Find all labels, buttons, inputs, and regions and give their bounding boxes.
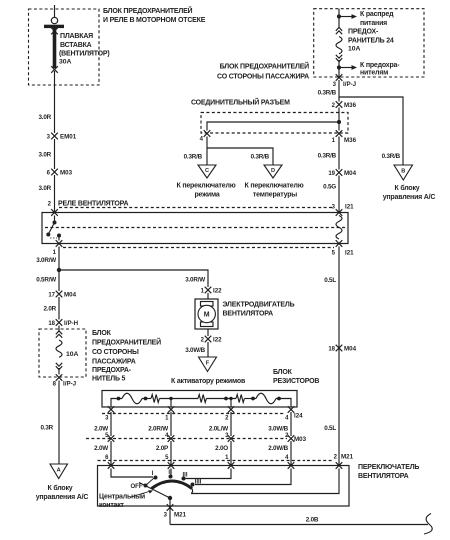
svg-text:3.0R: 3.0R [38,114,51,121]
svg-text:IIII: IIII [195,480,202,486]
passenger fuse block dashed boundary through relay [59,207,334,209]
relay switch contact [54,216,56,223]
svg-text:4: 4 [200,137,204,143]
svg-text:БЛОК: БЛОК [273,369,293,376]
svg-text:C: C [205,168,209,174]
wires M03 to M21 [110,441,112,466]
wire 3.0R to relay [54,175,56,213]
connector I24 row [108,406,115,413]
connector M03 pin 6 [51,169,58,176]
continuation squiggle [424,514,432,535]
svg-text:2: 2 [332,103,336,109]
svg-text:3.0R/W: 3.0R/W [185,277,205,284]
svg-text:2.0R: 2.0R [43,306,56,313]
svg-text:(ВЕНТИЛЯТОР): (ВЕНТИЛЯТОР) [59,51,110,58]
wire inside fuse block [338,9,340,28]
svg-text:I21: I21 [345,204,354,211]
node to fuses [337,65,341,69]
wire to motor [207,293,209,299]
svg-text:0.5L: 0.5L [324,277,336,284]
svg-text:РЕЛЕ ВЕНТИЛЯТОРА: РЕЛЕ ВЕНТИЛЯТОРА [58,201,128,208]
svg-text:3: 3 [332,205,336,211]
svg-text:управления А/С: управления А/С [383,194,436,201]
svg-text:0.3R/B: 0.3R/B [184,154,203,161]
svg-text:2: 2 [334,455,338,461]
thermal limiter coil 2 [256,393,276,404]
engine compartment fuse/relay block (dashed box) [29,9,100,85]
svg-text:ВСТАВКА: ВСТАВКА [60,42,92,49]
svg-text:ПЕРЕКЛЮЧАТЕЛЬ: ПЕРЕКЛЮЧАТЕЛЬ [358,464,419,471]
wire 3.0R [54,139,56,169]
svg-text:2.0W/B: 2.0W/B [268,445,288,452]
connector I22 pin 1 [205,287,212,294]
rotor arc [152,481,193,489]
svg-text:2: 2 [48,202,52,208]
svg-text:B: B [401,169,405,175]
fan switch box [98,466,350,507]
resistor 3 [236,395,244,403]
svg-text:II: II [168,470,172,476]
connector I/P-J pin 8 [58,368,60,375]
svg-text:ПРЕДОХРАНИТЕЛЕЙ: ПРЕДОХРАНИТЕЛЕЙ [92,338,161,347]
svg-text:нителям: нителям [360,70,388,77]
node to power distribution [337,14,341,18]
wire 2.0R [58,297,60,320]
svg-text:III: III [182,473,187,479]
svg-text:0.5R/W: 0.5R/W [36,277,56,284]
svg-text:1: 1 [165,416,169,422]
wire 3.0R/W below relay pin 1 [58,247,60,292]
relay coil [336,216,342,240]
relay pin 5 I21 [336,240,343,247]
svg-text:M21: M21 [174,512,187,519]
svg-text:БЛОК ПРЕДОХРАНИТЕЛЕЙ: БЛОК ПРЕДОХРАНИТЕЛЕЙ [220,62,310,71]
wire 0.3R/B main [338,137,340,170]
connector M36 pin 2 [336,101,343,108]
svg-text:2.0W: 2.0W [94,445,108,452]
central contact [168,496,172,500]
svg-text:I21: I21 [345,250,354,257]
svg-text:2: 2 [225,416,229,422]
svg-text:1: 1 [201,289,205,295]
svg-text:3.0R/W: 3.0R/W [36,257,56,264]
wire 3.0W/B [207,342,209,357]
svg-text:контакт: контакт [99,502,125,509]
svg-text:НИТЕЛЬ 5: НИТЕЛЬ 5 [92,376,126,383]
svg-text:СО СТОРОНЫ ПАССАЖИРА: СО СТОРОНЫ ПАССАЖИРА [217,74,309,81]
svg-text:К блоку: К блоку [395,184,420,192]
tap pin 2 [229,397,232,400]
svg-text:I24: I24 [294,413,303,420]
branch wire to A/C control [339,97,403,165]
connector I/P-H pin 18 [56,319,63,326]
svg-text:3.0W/B: 3.0W/B [185,347,205,354]
svg-text:10А: 10А [348,46,361,53]
junction node [337,120,341,124]
svg-text:ПАССАЖИРА: ПАССАЖИРА [92,359,136,366]
switch lever [139,483,170,499]
connector M03 row [108,435,115,442]
passenger fuse block (dashed box, top right) [314,9,424,77]
svg-text:1: 1 [53,250,57,256]
svg-text:ПРЕДОХРА-: ПРЕДОХРА- [92,367,132,374]
svg-text:2.0P: 2.0P [156,445,168,452]
connector I22 pin 2 [207,329,209,336]
svg-text:I22: I22 [213,337,222,344]
svg-text:2.0R/W: 2.0R/W [148,426,168,433]
svg-text:0.5G: 0.5G [323,184,336,191]
connector M04 pin 17 [56,291,63,298]
triangle A [50,464,68,479]
svg-text:3: 3 [47,135,51,141]
svg-text:6: 6 [47,171,51,177]
svg-text:F: F [206,361,210,367]
svg-text:2.0B: 2.0B [306,517,319,524]
svg-text:I/P-H: I/P-H [64,320,79,327]
svg-text:I22: I22 [213,288,222,295]
wire 0.3R to A [58,381,60,465]
svg-text:18: 18 [48,321,55,327]
svg-text:M03: M03 [294,436,307,443]
wire 0.5L relay to switch [338,247,340,466]
wire 0.5G [338,176,340,213]
svg-text:управления А/С: управления А/С [36,494,89,501]
thermal limiter coil [122,393,142,404]
wires resistor block to M03 [110,412,112,436]
svg-text:К переключателю: К переключателю [245,183,304,190]
svg-text:17: 17 [48,293,55,299]
contact IIII [191,483,195,487]
svg-text:OFF: OFF [131,484,143,490]
svg-text:M04: M04 [64,292,77,299]
svg-text:2.0L/W: 2.0L/W [209,426,228,433]
svg-text:К переключателю: К переключателю [177,183,236,190]
svg-text:БЛОК ПРЕДОХРАНИТЕЛЕЙ: БЛОК ПРЕДОХРАНИТЕЛЕЙ [103,6,193,15]
svg-text:0.3R/B: 0.3R/B [318,153,337,160]
svg-text:I/P-J: I/P-J [63,381,77,388]
fan relay box [42,213,348,244]
triangle D [264,165,282,178]
connector M21 row [98,460,306,462]
svg-text:10А: 10А [66,351,79,358]
contact II [169,475,173,479]
contact III [182,477,186,481]
contact OFF [144,484,148,488]
joint connector (dashed box) [201,113,348,134]
svg-text:0.3R/B: 0.3R/B [251,154,270,161]
svg-text:3: 3 [164,513,168,519]
passenger fuse block fuse 5 (dashed box) [39,329,86,377]
svg-text:2.0W: 2.0W [94,426,108,433]
wire 2.0B ground run [170,524,428,526]
wire to pin 4 [207,122,339,131]
connector M04 pin 18 [336,345,343,352]
svg-text:РЕЗИСТОРОВ: РЕЗИСТОРОВ [273,378,319,385]
wire 3.0R from fusible link [54,71,56,133]
svg-text:4: 4 [285,416,289,422]
svg-text:К блоку: К блоку [48,484,73,492]
svg-text:M04: M04 [344,170,357,177]
relay pin 1 chevron [56,240,63,247]
svg-text:0.3R/B: 0.3R/B [318,90,337,97]
svg-text:1: 1 [332,138,336,144]
svg-text:БЛОК: БЛОК [92,330,112,337]
svg-text:M03: M03 [60,170,73,177]
svg-text:температуры: температуры [253,192,297,199]
connector M36 pin 1 [336,130,343,137]
blower motor M [195,299,218,329]
resistor chain wire [111,399,122,408]
wire stub above fusible link [54,5,56,18]
triangle B [394,165,413,180]
triangle C [198,165,216,178]
svg-text:ВЕНТИЛЯТОРА: ВЕНТИЛЯТОРА [223,311,274,318]
connector pin 4 [204,130,211,137]
svg-text:19: 19 [328,171,335,177]
svg-text:EM01: EM01 [60,134,77,141]
tap pin 1 [169,397,172,400]
svg-text:0.5L: 0.5L [324,425,336,432]
connector EM01 pin 3 [51,133,58,140]
svg-text:РАНИТЕЛЬ 24: РАНИТЕЛЬ 24 [348,38,394,45]
connector M21 pin 3 [169,498,171,525]
svg-text:5: 5 [332,251,336,257]
svg-text:питания: питания [360,20,387,27]
svg-text:ПРЕДОХ-: ПРЕДОХ- [348,29,379,36]
svg-text:M04: M04 [344,346,357,353]
svg-text:3.0W/B: 3.0W/B [268,426,288,433]
svg-text:ВЕНТИЛЯТОРА: ВЕНТИЛЯТОРА [358,473,409,480]
svg-text:К предохра-: К предохра- [360,62,400,69]
svg-text:Центральный: Центральный [99,493,145,501]
fuse 24 10A [336,27,342,34]
svg-text:M21: M21 [341,454,354,461]
relay pin 2 chevron [51,209,58,216]
switch wiring to contacts [111,469,153,478]
svg-text:I/P-J: I/P-J [343,81,357,88]
connector M04 pin 19 [336,169,343,176]
svg-text:8: 8 [53,382,57,388]
connector I/P-J pin 3 [336,74,343,81]
triangle F [199,357,217,372]
resistor 2 [198,395,206,403]
svg-text:3.0R: 3.0R [38,185,51,192]
svg-text:30А: 30А [59,59,72,66]
branch wire 3.0R/W to motor [59,270,208,287]
svg-text:режима: режима [194,192,219,199]
switch pin chevrons [108,462,115,469]
resistor block box [102,391,297,408]
resistor 1 [151,395,159,403]
wire through joint connector [338,108,340,131]
svg-text:3: 3 [105,416,109,422]
contact I [154,476,158,480]
svg-text:М: М [204,312,210,319]
fuse 5 10A [56,331,62,338]
svg-text:I: I [152,471,154,477]
svg-text:3.0R: 3.0R [38,152,51,159]
svg-text:3: 3 [333,82,337,88]
svg-text:A: A [57,468,61,474]
svg-text:ПЛАВКАЯ: ПЛАВКАЯ [60,33,93,40]
svg-text:M36: M36 [344,137,357,144]
wire [338,60,340,77]
junction node [57,268,61,272]
svg-text:18: 18 [328,347,335,353]
svg-text:0.3R/B: 0.3R/B [382,153,401,160]
wire 0.3R/B to C and D [206,137,208,166]
svg-text:2: 2 [201,338,205,344]
svg-text:СОЕДИНИТЕЛЬНЫЙ РАЗЪЕМ: СОЕДИНИТЕЛЬНЫЙ РАЗЪЕМ [191,98,290,107]
svg-text:К активатору режимов: К активатору режимов [171,378,246,385]
svg-text:ЭЛЕКТРОДВИГАТЕЛЬ: ЭЛЕКТРОДВИГАТЕЛЬ [223,302,295,309]
svg-text:M36: M36 [344,102,357,109]
svg-text:СО СТОРОНЫ: СО СТОРОНЫ [92,349,139,356]
wire 0.3R/B [338,80,340,102]
svg-text:D: D [271,168,275,174]
svg-text:0.3R: 0.3R [40,425,53,432]
svg-text:И РЕЛЕ В МОТОРНОМ ОТСЕКЕ: И РЕЛЕ В МОТОРНОМ ОТСЕКЕ [103,17,206,24]
svg-text:2.0O: 2.0O [215,445,228,452]
svg-text:К распред: К распред [360,11,394,18]
fusible link (ventilator) 30A [51,17,57,23]
